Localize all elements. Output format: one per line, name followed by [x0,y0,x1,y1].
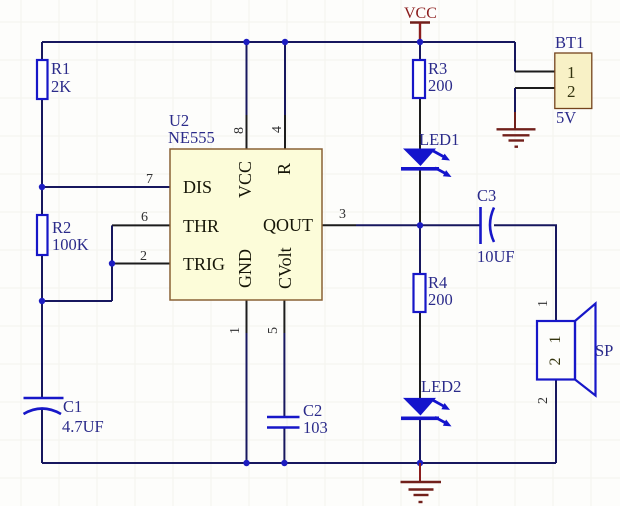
wire R4 to LED2 [419,312,421,398]
wire R2 bottom to node [41,255,43,301]
pin 4 stub [284,115,286,149]
pin 5 stub [283,300,285,333]
wire node to left rail [42,300,112,302]
LED2 [401,377,461,426]
wire BT1 pin1 [514,42,516,72]
svg-text:5V: 5V [556,108,576,127]
svg-text:C3: C3 [477,186,496,205]
svg-text:4.7UF: 4.7UF [62,417,104,436]
resistor R2 [37,215,89,255]
svg-text:2: 2 [547,358,564,366]
svg-text:103: 103 [303,418,328,437]
svg-text:3: 3 [339,207,346,222]
wire THR-TRIG vertical [111,225,113,301]
svg-text:LED1: LED1 [419,130,459,149]
power port VCC [404,5,437,42]
ground bottom [401,463,442,502]
svg-text:100K: 100K [52,235,89,254]
svg-text:NE555: NE555 [168,128,215,147]
wire node to C3 [420,224,480,226]
BT1 pin1 stub [515,71,555,73]
wire GND pin1 to bottom rail [246,333,248,463]
wire TRIG pin2 [112,263,170,265]
node junction top pin4 [282,39,288,45]
pin 1 stub [246,300,248,333]
svg-text:10UF: 10UF [477,247,515,266]
svg-text:BT1: BT1 [555,33,584,52]
node junction GND rail LED2 [417,460,423,466]
svg-text:200: 200 [428,76,453,95]
wire THR pin6 [112,224,170,226]
svg-text:1: 1 [228,327,243,334]
BT1 pin2 stub [515,87,555,89]
svg-text:SP: SP [595,341,613,360]
svg-text:VCC: VCC [404,5,437,22]
wire R1 bottom to DIS junction [41,99,43,187]
node junction top pin8 [243,39,249,45]
svg-text:GND: GND [235,249,255,288]
node junction TRIG [109,260,115,266]
svg-text:2: 2 [536,397,551,404]
node junction GND rail C2 [281,460,287,466]
svg-text:1: 1 [567,63,576,82]
svg-text:1: 1 [536,300,551,307]
wire DIS junction to R2 [41,187,43,215]
node junction DIS [39,184,45,190]
wire C1 to bottom rail [41,409,43,463]
svg-text:C1: C1 [63,397,82,416]
svg-text:2: 2 [140,249,147,264]
pin 3 stub [322,224,356,226]
resistor R4 [414,273,453,312]
node junction VCC [417,39,423,45]
wire BT1 pin2 down [514,88,516,112]
wire DIS pin7 [42,186,170,188]
svg-text:2: 2 [567,82,576,101]
wire pin8 [246,42,248,115]
wire C2 to bottom rail [283,428,285,463]
svg-text:200: 200 [428,290,453,309]
svg-text:R: R [274,163,294,175]
wire pin4 [284,42,286,115]
wire R3 top [419,42,421,60]
svg-text:THR: THR [183,216,219,236]
svg-text:2K: 2K [51,77,71,96]
svg-text:4: 4 [270,126,285,133]
wire LED2 to bottom rail [419,420,421,463]
wire bottom rail [42,462,556,464]
svg-text:8: 8 [232,127,247,134]
wire node to C1 [41,301,43,398]
wire speaker to bottom rail [555,380,557,463]
op-amp U2 NE555 body [168,111,322,300]
capacitor C1 [24,397,104,436]
svg-text:5: 5 [266,327,281,334]
svg-text:CVolt: CVolt [275,247,295,289]
wire R4 top [419,225,421,274]
svg-text:7: 7 [146,172,153,187]
wire LED1 to node [419,170,421,225]
capacitor C2 [267,401,328,437]
LED1 [401,130,459,177]
wire R3 to LED1 [419,98,421,149]
node junction R2 bottom [39,298,45,304]
node junction QOUT [417,222,423,228]
wire QOUT to node [356,224,420,226]
ground BT1 [497,129,536,146]
resistor R3 [413,59,453,98]
wire BT1 to ground [514,112,516,129]
node junction GND rail pin1 [243,460,249,466]
wire C3 to speaker corner [494,225,556,321]
battery BT1 [555,33,592,127]
wire top rail [42,41,515,43]
svg-text:LED2: LED2 [421,377,461,396]
svg-text:R1: R1 [51,59,70,78]
wire left rail upper [41,42,43,60]
speaker SP [536,300,613,404]
svg-text:DIS: DIS [183,177,212,197]
svg-text:TRIG: TRIG [183,254,225,274]
capacitor C3 [477,186,515,266]
svg-text:1: 1 [547,336,564,344]
svg-text:VCC: VCC [235,161,255,198]
svg-text:QOUT: QOUT [263,215,313,235]
wire CVolt pin5 to C2 [283,333,285,416]
svg-text:6: 6 [141,210,148,225]
pin 8 stub [246,115,248,149]
resistor R1 [37,59,71,99]
